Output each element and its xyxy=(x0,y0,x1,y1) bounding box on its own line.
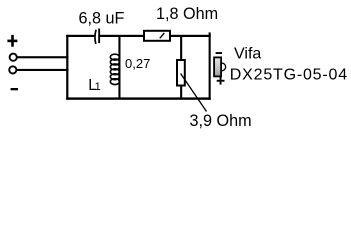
svg-text:1,8 Ohm: 1,8 Ohm xyxy=(156,5,218,23)
wire left vertical bus xyxy=(66,35,68,100)
inductor L1 coil xyxy=(110,54,119,84)
wire speaker vertical bus xyxy=(209,32,211,99)
speaker minus mark xyxy=(216,52,222,54)
resistor R1 box xyxy=(144,31,170,41)
resistor R1 slash mark xyxy=(160,33,165,38)
terminal circle (+ input) xyxy=(10,54,17,61)
label L1 xyxy=(88,77,101,94)
svg-text:1: 1 xyxy=(95,81,101,93)
resistor R2 box xyxy=(177,60,185,86)
terminal plus sign xyxy=(7,35,17,47)
wire junction down to R2 xyxy=(180,36,182,60)
svg-text:3,9 Ohm: 3,9 Ohm xyxy=(190,112,252,130)
terminal circle (- input) xyxy=(9,66,16,73)
wire from + terminal to left node xyxy=(17,56,69,58)
wire bottom rail xyxy=(66,97,211,99)
speaker dome xyxy=(222,63,226,71)
svg-text:Vifa: Vifa xyxy=(234,45,261,62)
wire from - terminal to left node xyxy=(16,69,68,71)
wire top rail: left node to capacitor xyxy=(66,35,94,37)
capacitor C1 curved plate xyxy=(95,30,96,44)
svg-text:0,27: 0,27 xyxy=(125,56,150,71)
leader line from R2 to its label xyxy=(181,74,207,112)
capacitor C1 flat plate xyxy=(98,29,100,44)
wire R2 to bottom rail xyxy=(180,86,182,99)
wire inductor vertical xyxy=(118,36,120,99)
svg-text:DX25TG-05-04: DX25TG-05-04 xyxy=(230,67,348,84)
speaker plus mark xyxy=(217,77,225,85)
wire top rail: capacitor to R1 xyxy=(100,35,143,37)
terminal minus sign xyxy=(11,88,18,90)
wire top rail: R1 to speaker xyxy=(171,35,211,37)
svg-text:6,8 uF: 6,8 uF xyxy=(79,9,125,27)
